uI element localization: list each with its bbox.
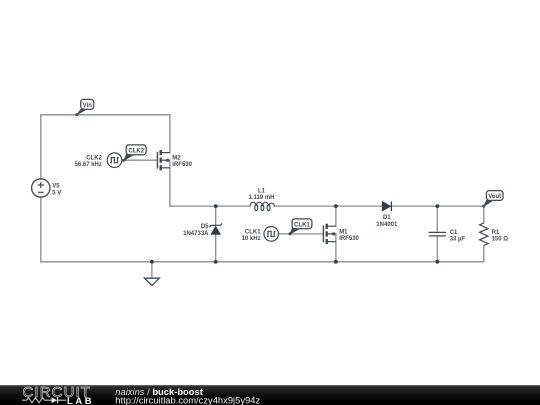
svg-text:56.67 kHz: 56.67 kHz [75,162,102,168]
svg-text:150 Ω: 150 Ω [492,236,509,242]
label C1 value 33 uF [450,230,466,243]
wire M1 source stub [335,234,337,262]
label L1 value 1.119 mH [248,188,274,201]
net flag Vin [75,99,93,116]
wire R1 bottom stub [483,246,485,262]
label R1 value 150 Ohm [492,230,509,243]
svg-text:D1: D1 [383,215,391,221]
diode D1 1N4001 [382,202,391,212]
svg-text:C1: C1 [450,230,458,236]
svg-text:CLK2: CLK2 [86,156,102,162]
wire CLK2 to M2 gate [122,159,158,161]
svg-text:V5: V5 [52,184,60,190]
logo CircuitLab [22,384,94,405]
svg-text:5 V: 5 V [52,190,61,196]
wire V5 top stub [40,115,42,179]
inductor L1 [250,202,275,211]
label D5 value 1N4733A [183,224,209,237]
wire R1 top stub [483,206,485,223]
ground symbol [145,278,160,285]
wire M2 drain stub [169,115,171,153]
svg-text:10 kHz: 10 kHz [242,236,261,242]
wire D5 bottom stub [215,234,217,261]
svg-text:D5: D5 [201,224,209,230]
svg-text:Vout: Vout [488,194,501,200]
transistor M2 NMOS [157,150,170,170]
footer bar [0,385,540,405]
label V5 value 5 V [52,184,61,197]
label CLK2 value 56.67 kHz [75,156,103,169]
wire middle rail left segment [170,205,250,207]
svg-text:M1: M1 [339,229,348,235]
svg-text:CLK1: CLK1 [245,229,261,235]
label CLK1 value 10 kHz [242,229,262,242]
label M1 IRF530 [339,229,359,242]
clock source CLK1 [264,227,279,242]
svg-text:1N4733A: 1N4733A [183,231,209,237]
wire M1 drain stub [335,206,337,226]
capacitor C1 [429,232,446,236]
wire bottom rail ground net [41,261,484,263]
wire V5 bottom stub [40,197,42,262]
svg-text:IRF530: IRF530 [339,236,359,242]
svg-text:M2: M2 [172,156,181,162]
svg-text:CLK2: CLK2 [128,148,144,154]
svg-text:L1: L1 [258,188,266,194]
wire CLK1 to M1 gate [279,233,324,235]
wire D5 top stub [215,206,217,225]
svg-text:CLK1: CLK1 [294,222,310,228]
wire ground stub [151,262,153,278]
clock source CLK2 [107,153,122,168]
svg-text:LAB: LAB [67,395,94,405]
wire middle rail right segment Vout net [391,205,483,207]
footer title and url text [115,386,260,405]
svg-text:33 µF: 33 µF [450,236,466,242]
svg-text:R1: R1 [492,230,500,236]
svg-text:1.119 mH: 1.119 mH [248,195,274,201]
voltage source V5 [32,179,50,197]
zener diode D5 1N4733A [210,223,223,234]
svg-text:1N4001: 1N4001 [376,222,398,228]
wire top rail Vin [41,114,170,116]
resistor R1 [480,223,488,246]
wire C1 top stub [436,206,438,232]
wire middle rail center segment [275,205,383,207]
transistor M1 NMOS [323,224,336,244]
svg-text:Vin: Vin [83,103,93,109]
net flag CLK1 [288,219,312,236]
svg-text:http://circuitlab.com/czy4hx9j: http://circuitlab.com/czy4hx9j5y94z [115,394,260,405]
junction node dots [150,204,439,263]
wire C1 bottom stub [436,236,438,262]
wire M2 source stub [169,160,171,206]
svg-text:IRF530: IRF530 [172,162,192,168]
label D1 value 1N4001 [376,215,398,228]
net flag CLK2 [122,145,146,162]
label M2 IRF530 [172,156,192,169]
net flag Vout [482,191,503,208]
